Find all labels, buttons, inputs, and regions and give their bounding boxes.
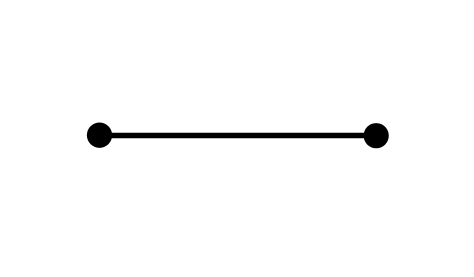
node A (left junction) <box>87 123 112 148</box>
wire <box>100 133 377 138</box>
node B (right junction) <box>364 123 389 148</box>
